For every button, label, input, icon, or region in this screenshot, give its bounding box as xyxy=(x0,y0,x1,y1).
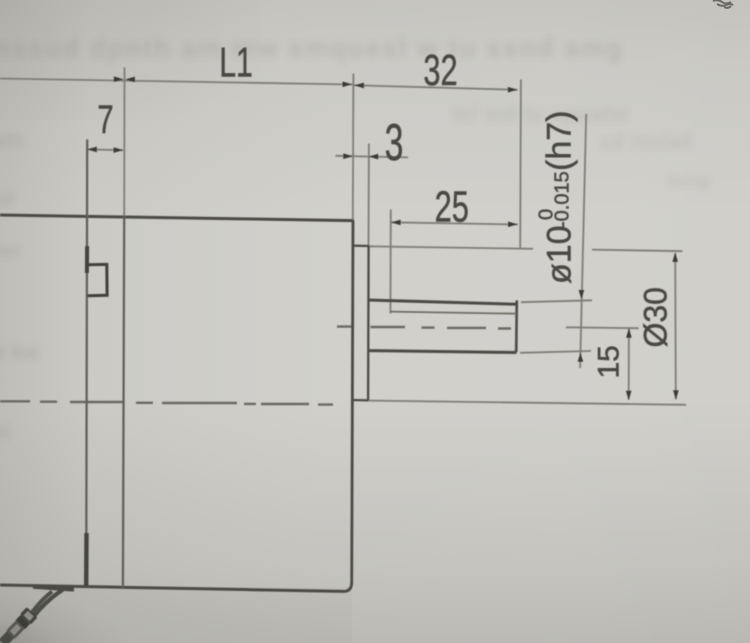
svg-text:32: 32 xyxy=(423,47,457,96)
svg-text:ø10: ø10 xyxy=(541,225,579,284)
svg-text:ath: ath xyxy=(0,130,23,152)
svg-text:temg: temg xyxy=(668,171,709,190)
svg-text:(h7): (h7) xyxy=(541,111,579,171)
svg-text:Ø30: Ø30 xyxy=(638,287,674,347)
svg-text:7: 7 xyxy=(97,98,113,143)
svg-text:L1: L1 xyxy=(219,39,253,86)
svg-text:3: 3 xyxy=(385,114,404,172)
svg-text:nssud dpnth am mw smquesl w tu: nssud dpnth am mw smquesl w tu ssnd amg xyxy=(0,33,624,63)
svg-text:mn: mn xyxy=(0,241,20,261)
svg-text:15: 15 xyxy=(593,345,626,378)
svg-text:sd inolad: sd inolad xyxy=(600,132,692,153)
svg-text:e kw: e kw xyxy=(0,342,39,364)
svg-text:-0.015: -0.015 xyxy=(552,171,574,228)
svg-text:sd: sd xyxy=(0,188,13,208)
svg-text:25: 25 xyxy=(435,183,469,232)
svg-text:ol: ol xyxy=(0,422,9,442)
